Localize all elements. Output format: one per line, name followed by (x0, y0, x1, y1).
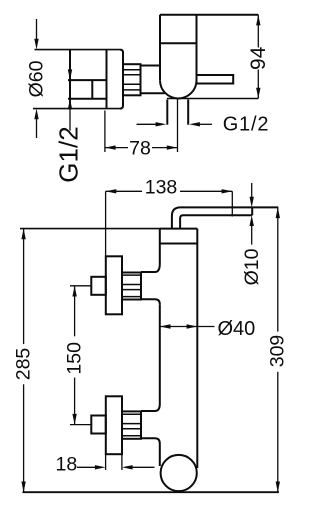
bottom tangent / 94 extension line (167, 98, 258, 100)
dimension Ø40 (160, 326, 215, 328)
svg-text:78: 78 (129, 138, 151, 160)
lower connector with fillets (front view) (141, 404, 160, 444)
svg-text:94: 94 (247, 46, 270, 70)
svg-text:285: 285 (13, 348, 35, 381)
outlet stub below body (side view) (167, 100, 188, 125)
138 dimension (106, 191, 233, 256)
svg-text:309: 309 (267, 335, 289, 368)
lower hex nut (front view) (122, 411, 141, 438)
dimension 309 (277, 207, 279, 492)
dimension 18 (77, 454, 155, 470)
connector between nut and body (side view) (141, 66, 165, 94)
upper hex nut (front view) (122, 273, 141, 300)
faucet body (side view) (160, 15, 197, 99)
285 top extension line (20, 228, 160, 230)
lower supply stub (front view) (91, 416, 106, 434)
dimension G1/2 (outlet, side view) (137, 123, 213, 125)
upper wall flange (front view) (106, 256, 122, 314)
dimension 78 (105, 147, 178, 149)
dimension Ø10 (251, 183, 253, 245)
svg-text:Ø10: Ø10 (241, 248, 263, 285)
dimension Ø60 (36, 19, 38, 138)
svg-text:Ø60: Ø60 (26, 60, 48, 97)
ball bottom of body (front view) (161, 455, 197, 491)
upper connector with fillets (front view) (141, 264, 160, 304)
svg-text:138: 138 (145, 177, 178, 199)
flange top/bottom extension lines (Ø60) (33, 50, 120, 109)
dimension G1/2 (wall stub, side view) (69, 109, 71, 131)
upper supply stub (front view) (91, 277, 106, 295)
svg-text:G1/2: G1/2 (54, 126, 84, 182)
wall flange escutcheon (side view) (70, 50, 123, 109)
bottom extension line (23, 491, 279, 493)
78 left extension line (104, 111, 106, 153)
shower outlet pipe (front view) (172, 207, 278, 228)
svg-text:G1/2: G1/2 (223, 113, 270, 135)
svg-text:Ø40: Ø40 (218, 318, 256, 340)
outlet centreline / 78 right extension (177, 100, 179, 153)
dimension 285 (23, 229, 25, 493)
svg-text:18: 18 (56, 454, 78, 476)
dimension 94 (257, 15, 259, 99)
lower wall flange (front view) (106, 396, 122, 454)
wall supply stub (side view) (68, 80, 107, 99)
body top line extended to 94 dim (160, 14, 258, 16)
union hex nut (side view) (123, 64, 141, 95)
svg-text:150: 150 (64, 342, 86, 375)
handle lever (side view) (197, 75, 234, 84)
body (front view) (160, 229, 198, 468)
dimension 150 (70, 286, 91, 425)
